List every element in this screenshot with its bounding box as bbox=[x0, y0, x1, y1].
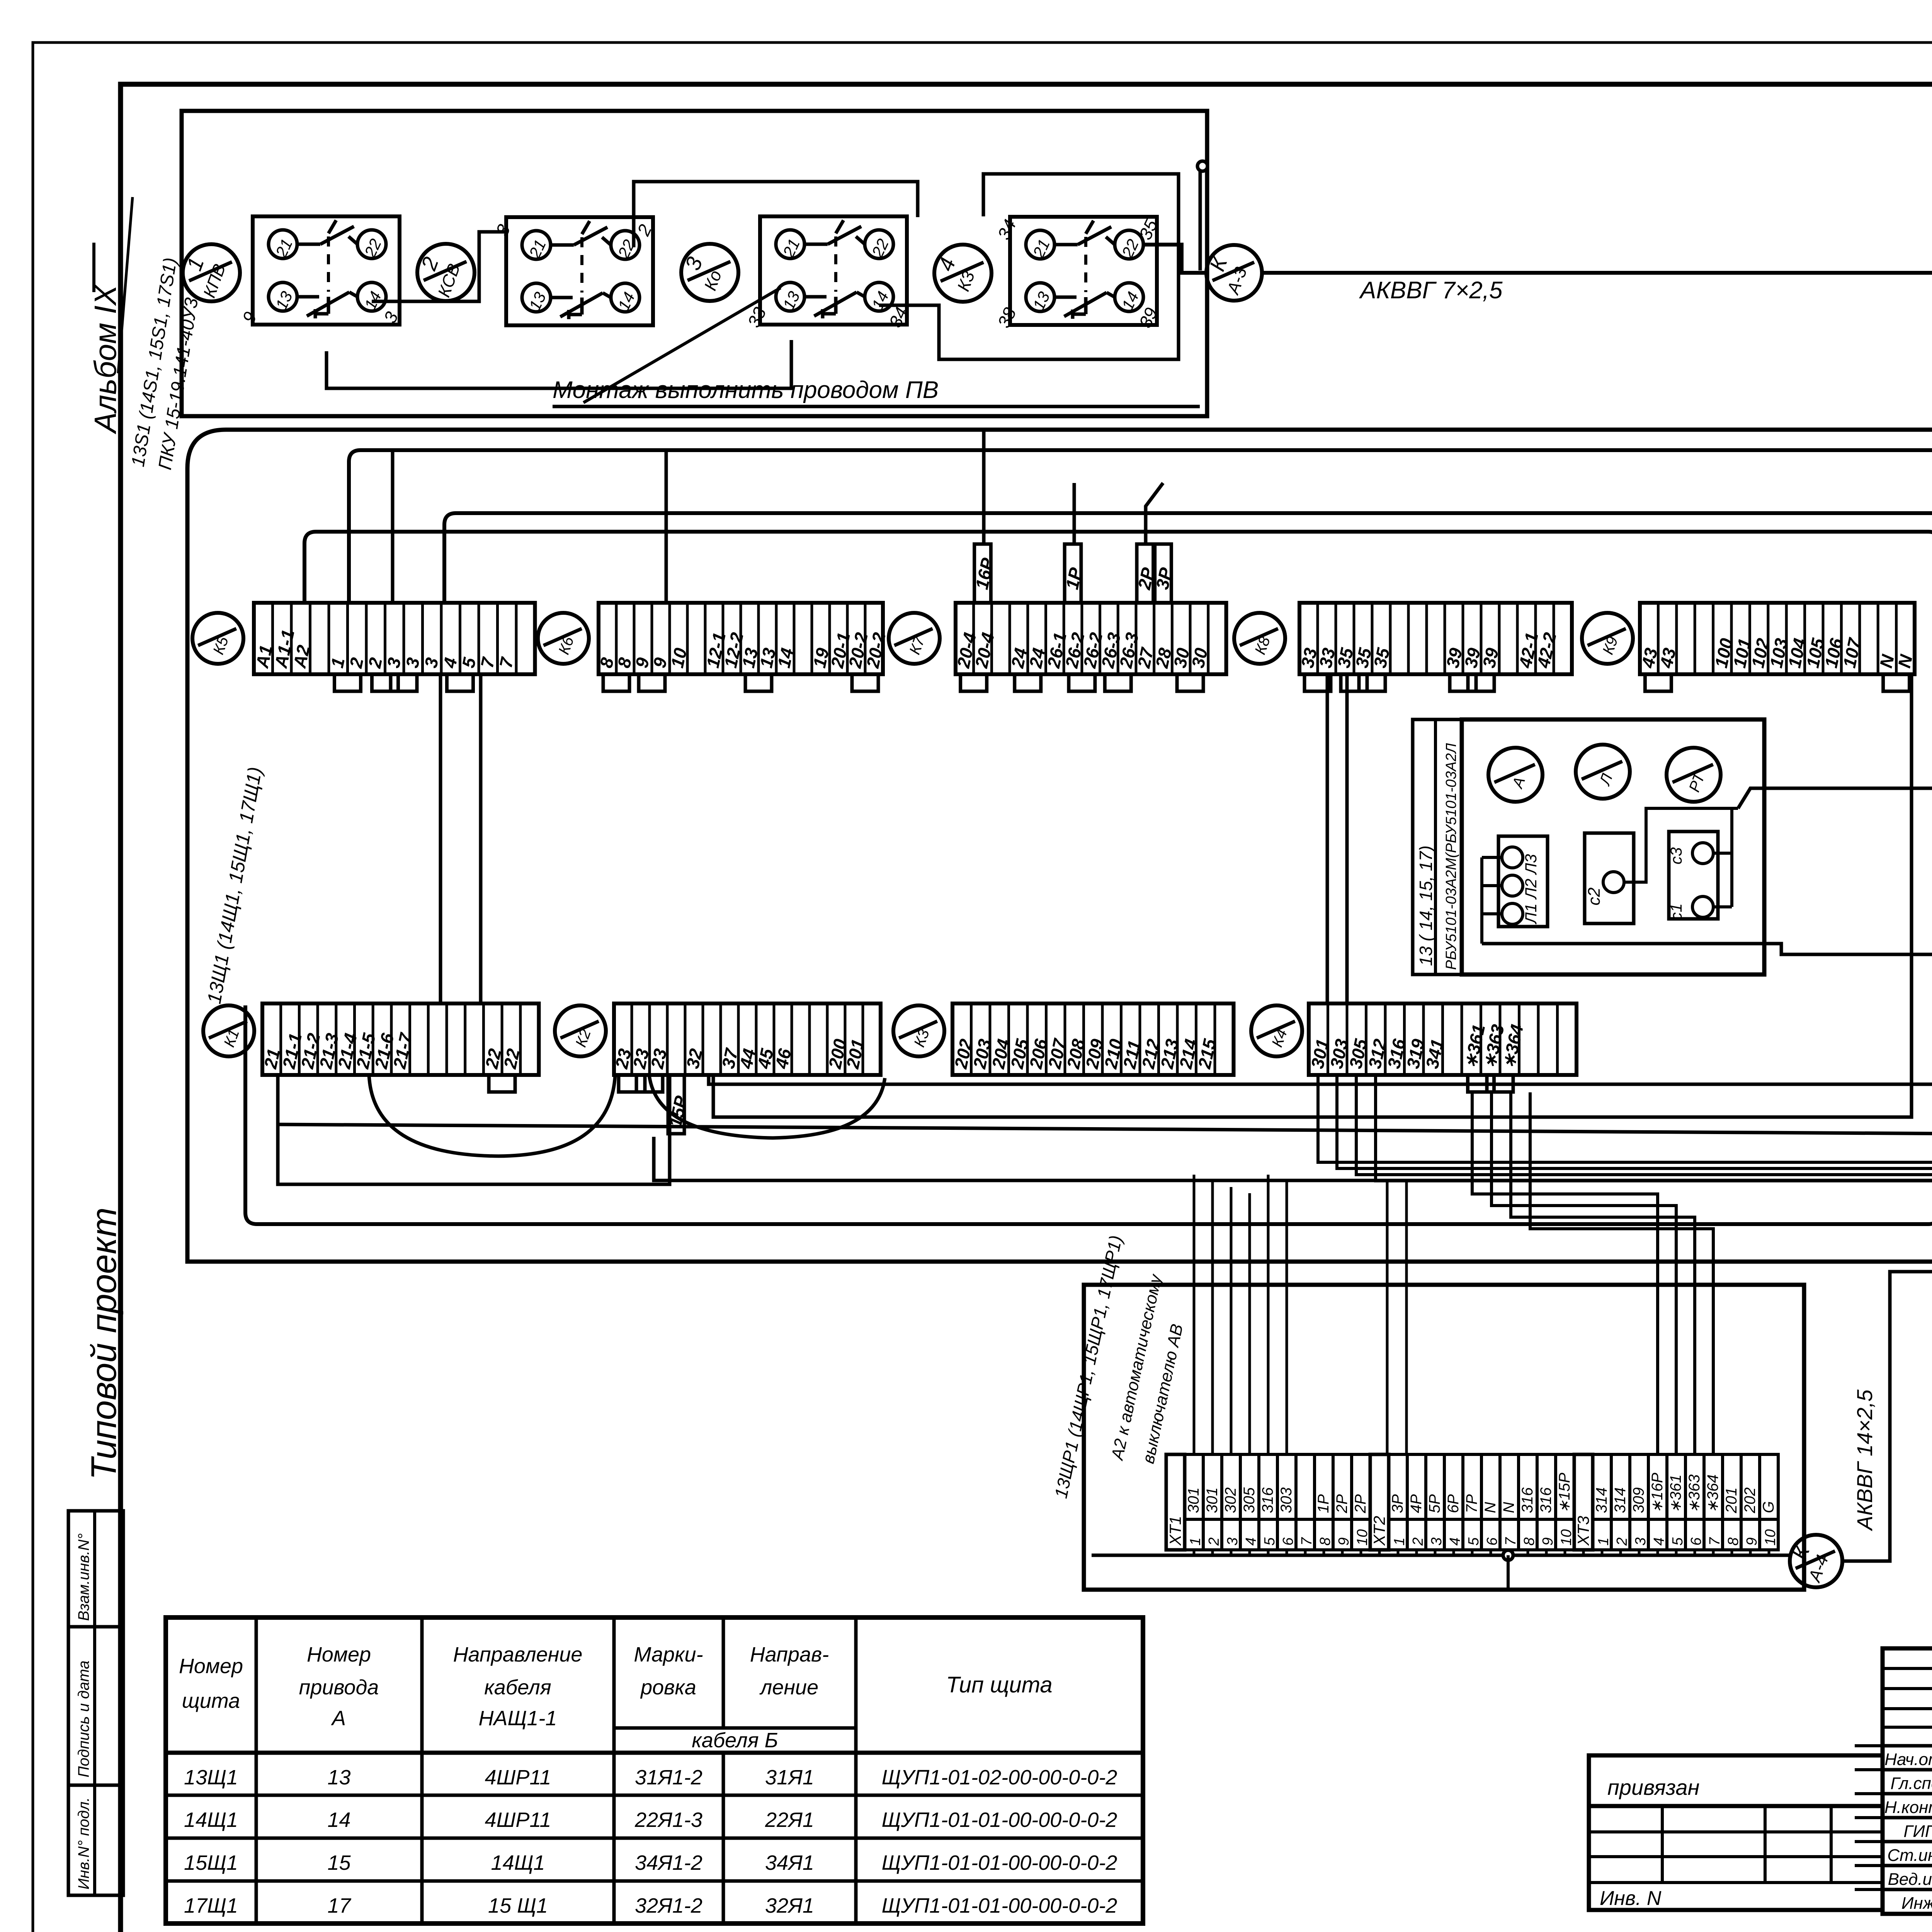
contact group S4 (K3) bbox=[993, 216, 1162, 331]
svg-text:Гл.спец: Гл.спец bbox=[1891, 1774, 1932, 1793]
svg-text:14: 14 bbox=[327, 1808, 350, 1832]
svg-text:9: 9 bbox=[1540, 1537, 1556, 1546]
svg-text:15: 15 bbox=[327, 1851, 351, 1874]
meter circle L bbox=[1576, 745, 1630, 799]
terminal block circle K4 bbox=[1251, 1005, 1302, 1056]
device circle 3/Ko bbox=[680, 244, 738, 301]
svg-text:8: 8 bbox=[1725, 1537, 1742, 1546]
wire K8 to K4 vertical b bbox=[1345, 674, 1349, 1003]
wire K4 cell down-right 4 bbox=[1376, 1075, 1932, 1181]
terminal strip K9 bbox=[1638, 603, 1917, 691]
svg-text:2: 2 bbox=[416, 254, 443, 274]
svg-text:3: 3 bbox=[1633, 1537, 1649, 1546]
svg-text:1: 1 bbox=[1595, 1537, 1612, 1546]
cable circle K/A-3 (left) bbox=[1204, 245, 1262, 301]
device circle 2/KSV bbox=[416, 244, 474, 301]
RBU terminal box L1 L2 L3 bbox=[1498, 836, 1548, 927]
wire riser 16R up bbox=[982, 429, 986, 544]
RBU bottom exit wire to NASch1-1 bbox=[1482, 944, 1932, 954]
svg-text:2: 2 bbox=[1206, 1537, 1222, 1546]
wire riser 1R up bbox=[1073, 483, 1076, 544]
svg-text:34Я1: 34Я1 bbox=[765, 1851, 814, 1874]
svg-text:Марки-: Марки- bbox=[634, 1643, 703, 1666]
cable circle K/A-4 (SchR1) bbox=[1787, 1535, 1842, 1587]
PKU internal wire bottom bus bbox=[327, 340, 791, 388]
svg-text:302: 302 bbox=[1222, 1487, 1239, 1513]
svg-text:ХТ2: ХТ2 bbox=[1370, 1516, 1388, 1546]
svg-text:Инв. N: Инв. N bbox=[1600, 1887, 1662, 1910]
svg-text:15 Щ1: 15 Щ1 bbox=[488, 1894, 548, 1917]
wire A3 bend into K5 cell 2 bbox=[349, 450, 1932, 603]
svg-text:5Р: 5Р bbox=[1426, 1494, 1443, 1513]
svg-text:∗361: ∗361 bbox=[1667, 1475, 1684, 1513]
svg-text:314: 314 bbox=[1593, 1487, 1610, 1513]
svg-text:Подпись и дата: Подпись и дата bbox=[75, 1660, 92, 1777]
terminal strip K5 bbox=[252, 603, 535, 691]
svg-text:303: 303 bbox=[1278, 1487, 1295, 1513]
wire jumper under K1 to K2 bbox=[278, 1075, 670, 1184]
svg-text:6Р: 6Р bbox=[1445, 1494, 1462, 1513]
svg-text:А: А bbox=[1509, 775, 1529, 791]
wire K4 cell down-right 1 bbox=[1318, 1075, 1932, 1162]
svg-text:14Щ1: 14Щ1 bbox=[184, 1808, 238, 1832]
SchR1 terminal strip bbox=[1166, 1454, 1779, 1550]
svg-text:N: N bbox=[1500, 1502, 1517, 1513]
RBU terminal box c1 c3 bbox=[1667, 832, 1718, 920]
wire K4 star cell down 4 bbox=[1530, 1092, 1713, 1454]
wire K4 star cell down 1 bbox=[1472, 1092, 1658, 1454]
svg-text:кабеля: кабеля bbox=[484, 1676, 551, 1699]
svg-text:4ШР11: 4ШР11 bbox=[485, 1766, 551, 1789]
PKU internal wire group1-group2 bbox=[372, 232, 506, 301]
terminal block circle K6 bbox=[538, 613, 589, 664]
privyazan box bbox=[1589, 1755, 1883, 1806]
svg-text:14: 14 bbox=[774, 646, 798, 670]
svg-text:Нач.отд.: Нач.отд. bbox=[1884, 1750, 1932, 1769]
svg-text:31Я1-2: 31Я1-2 bbox=[635, 1766, 702, 1789]
svg-text:10: 10 bbox=[1558, 1529, 1575, 1546]
svg-text:17Щ1: 17Щ1 bbox=[184, 1894, 238, 1917]
svg-text:ХТ1: ХТ1 bbox=[1166, 1516, 1184, 1546]
svg-text:Направ-: Направ- bbox=[750, 1643, 829, 1666]
svg-text:с1: с1 bbox=[1667, 903, 1685, 920]
svg-text:5: 5 bbox=[1466, 1537, 1482, 1546]
curved jumper under K2 bbox=[649, 1075, 885, 1138]
svg-text:13: 13 bbox=[327, 1766, 350, 1789]
svg-text:Монтаж выполнить проводом П: Монтаж выполнить проводом ПВ bbox=[553, 377, 939, 403]
PKU internal wire K3 loop around S4 bbox=[879, 174, 1179, 359]
svg-text:43: 43 bbox=[1656, 646, 1680, 670]
wire K4 star cell down 2 bbox=[1492, 1092, 1676, 1454]
privyazan lower grid bbox=[1589, 1806, 1883, 1910]
svg-text:РБУ5101-03А2М(РБУ5101-03А2Л: РБУ5101-03А2М(РБУ5101-03А2Л bbox=[1443, 743, 1459, 970]
SchR1 box outline bbox=[1084, 1285, 1804, 1590]
svg-text:ГИП: ГИП bbox=[1903, 1822, 1932, 1841]
svg-text:Инв.N° подл.: Инв.N° подл. bbox=[75, 1797, 92, 1889]
terminal block circle K2 bbox=[555, 1005, 606, 1056]
svg-text:Номер: Номер bbox=[179, 1655, 243, 1678]
wire K4 cell down-right 3 bbox=[1356, 1075, 1932, 1175]
svg-text:10: 10 bbox=[1354, 1529, 1371, 1546]
svg-text:3: 3 bbox=[1225, 1537, 1241, 1546]
contact group S2 (KSV) bbox=[492, 217, 656, 325]
svg-text:ЩУП1-01-02-00-00-0-0-2: ЩУП1-01-02-00-00-0-0-2 bbox=[882, 1766, 1117, 1789]
svg-text:Ст.инж.: Ст.инж. bbox=[1887, 1846, 1932, 1865]
svg-text:Альбом IX: Альбом IX bbox=[88, 284, 122, 434]
svg-text:Инж.: Инж. bbox=[1901, 1894, 1932, 1913]
svg-text:НАЩ1-1: НАЩ1-1 bbox=[479, 1707, 557, 1730]
svg-text:314: 314 bbox=[1612, 1487, 1629, 1513]
svg-text:2: 2 bbox=[1614, 1537, 1630, 1546]
svg-text:Номер: Номер bbox=[307, 1643, 371, 1666]
svg-text:4: 4 bbox=[1243, 1537, 1259, 1546]
svg-text:Н.контр.: Н.контр. bbox=[1884, 1798, 1932, 1817]
svg-text:23: 23 bbox=[647, 1047, 671, 1071]
terminal strip K8 bbox=[1297, 603, 1572, 691]
svg-text:ЩУП1-01-01-00-00-0-0-2: ЩУП1-01-01-00-00-0-0-2 bbox=[882, 1808, 1117, 1832]
svg-text:32Я1: 32Я1 bbox=[765, 1894, 814, 1917]
wire risers 2R 3R up bbox=[1146, 483, 1163, 544]
terminal strip K7 bbox=[953, 544, 1226, 691]
svg-text:с3: с3 bbox=[1667, 847, 1685, 864]
terminal block circle K7 bbox=[889, 613, 940, 664]
terminal block circle K3 bbox=[893, 1005, 944, 1056]
wire K4 cell down-right 2 bbox=[1337, 1075, 1932, 1168]
svg-text:301: 301 bbox=[1204, 1487, 1221, 1513]
contact group S1 (KPV) bbox=[238, 216, 402, 326]
RBU c2 wire bbox=[1624, 808, 1738, 882]
svg-text:G: G bbox=[1760, 1501, 1777, 1513]
terminal strip K4 bbox=[1307, 1003, 1577, 1092]
wire A3 branch into K5 cell 3 bbox=[391, 450, 395, 603]
svg-text:ЩУП1-01-01-00-00-0-0-2: ЩУП1-01-01-00-00-0-0-2 bbox=[882, 1894, 1117, 1917]
svg-text:привода: привода bbox=[299, 1676, 379, 1699]
svg-text:7: 7 bbox=[1707, 1537, 1723, 1546]
svg-text:7: 7 bbox=[1503, 1537, 1519, 1546]
svg-text:3Р: 3Р bbox=[1389, 1494, 1406, 1513]
svg-text:305: 305 bbox=[1241, 1487, 1258, 1513]
svg-text:9: 9 bbox=[238, 309, 261, 326]
PKU internal wire top link g2-g3 bbox=[634, 182, 918, 247]
leader line for note bbox=[583, 288, 781, 403]
svg-text:316: 316 bbox=[1519, 1487, 1536, 1513]
svg-text:34: 34 bbox=[993, 216, 1020, 243]
SchR1 internal bus wire bbox=[1092, 1554, 1789, 1557]
RBU top exit wire to NA-1 bbox=[1738, 788, 1932, 808]
svg-text:8: 8 bbox=[1521, 1537, 1537, 1546]
SchR1 junction dot on bus bbox=[1503, 1550, 1513, 1560]
svg-text:9: 9 bbox=[1744, 1537, 1760, 1546]
svg-text:3: 3 bbox=[492, 221, 514, 239]
svg-text:2Р: 2Р bbox=[1352, 1494, 1369, 1514]
curved jumper under K1 bbox=[369, 1075, 615, 1156]
margin box Vzam.inv.N bbox=[68, 1511, 123, 1627]
PKU right riser wire bbox=[1199, 171, 1202, 270]
RBU wires L1-L3 to left bus bbox=[1482, 857, 1502, 944]
SchR1 ground stub to box bottom bbox=[1507, 1555, 1510, 1590]
svg-text:7Р: 7Р bbox=[1463, 1494, 1480, 1513]
wire K6 cell down from A3 level bbox=[665, 450, 668, 603]
svg-text:1: 1 bbox=[182, 254, 209, 274]
svg-text:202: 202 bbox=[1742, 1487, 1759, 1514]
svg-text:10: 10 bbox=[1762, 1529, 1779, 1546]
cable wire A-3 to actuator bbox=[1262, 273, 1932, 454]
svg-text:6: 6 bbox=[1484, 1537, 1500, 1546]
junction circle on riser bbox=[1197, 161, 1207, 171]
svg-text:∗16Р: ∗16Р bbox=[1649, 1473, 1666, 1513]
svg-text:кабеля Б: кабеля Б bbox=[692, 1729, 778, 1752]
title block names grid bbox=[1855, 1648, 1932, 1914]
terminal block circle K8 bbox=[1234, 613, 1285, 664]
wire K8 to K4 vertical a bbox=[1326, 674, 1329, 1003]
terminal block circle K1 bbox=[203, 1005, 254, 1056]
enclosure wire loop N bbox=[245, 532, 1932, 1224]
svg-text:7: 7 bbox=[1299, 1537, 1315, 1546]
PKU wire to KA-3 bbox=[1143, 245, 1206, 273]
cable table rows bbox=[184, 1766, 1117, 1917]
cable table headers bbox=[179, 1643, 1053, 1752]
svg-text:3: 3 bbox=[1429, 1537, 1445, 1546]
terminal strip K3 bbox=[951, 1003, 1234, 1075]
svg-text:привязан: привязан bbox=[1607, 1775, 1699, 1799]
wire bus lower 2 bbox=[713, 674, 1912, 1117]
svg-text:Вед.инж: Вед.инж bbox=[1888, 1870, 1932, 1889]
svg-text:∗364: ∗364 bbox=[1704, 1475, 1721, 1513]
svg-text:22Я1: 22Я1 bbox=[765, 1808, 814, 1832]
svg-text:4: 4 bbox=[1447, 1537, 1463, 1546]
terminal block circle K5 bbox=[192, 613, 243, 664]
svg-text:1: 1 bbox=[1391, 1537, 1408, 1546]
wire 15R down and across bbox=[654, 1137, 1932, 1180]
svg-text:22: 22 bbox=[500, 1047, 524, 1071]
device circle 1/KPV bbox=[182, 244, 240, 301]
big enclosure outer box bbox=[187, 430, 1932, 1262]
svg-text:8: 8 bbox=[1317, 1537, 1333, 1546]
terminal block circle K9 bbox=[1582, 613, 1633, 664]
svg-text:201: 201 bbox=[1723, 1487, 1740, 1514]
wire K-B left segment bbox=[278, 1124, 1932, 1134]
svg-text:22Я1-3: 22Я1-3 bbox=[634, 1808, 702, 1832]
svg-text:6: 6 bbox=[1280, 1537, 1296, 1546]
svg-text:∗15Р: ∗15Р bbox=[1556, 1473, 1573, 1513]
RBU terminal box c2 bbox=[1585, 833, 1634, 923]
SchR1 wires up from XT1 bbox=[1194, 1175, 1406, 1454]
svg-text:32Я1-2: 32Я1-2 bbox=[635, 1894, 702, 1917]
svg-text:1Р: 1Р bbox=[1315, 1494, 1332, 1513]
svg-text:309: 309 bbox=[1630, 1487, 1647, 1513]
svg-text:Направление: Направление bbox=[453, 1643, 583, 1666]
wire K5 to K1 vertical a bbox=[439, 674, 442, 1003]
svg-text:316: 316 bbox=[1259, 1487, 1276, 1513]
svg-text:2Р: 2Р bbox=[1333, 1494, 1350, 1514]
svg-text:Тип щита: Тип щита bbox=[946, 1672, 1052, 1697]
device circle 4/K3 bbox=[933, 245, 992, 302]
svg-text:38: 38 bbox=[993, 304, 1020, 331]
svg-text:ХТ3: ХТ3 bbox=[1574, 1516, 1592, 1546]
terminal strip K1 bbox=[260, 1003, 539, 1092]
svg-text:3: 3 bbox=[680, 254, 707, 274]
svg-text:15Щ1: 15Щ1 bbox=[184, 1851, 238, 1874]
SchR1 outgoing wire right bbox=[1842, 1272, 1932, 1561]
wire K4 star cell down 3 bbox=[1511, 1092, 1695, 1454]
svg-text:4: 4 bbox=[933, 255, 960, 274]
wire bus under K2-K4 strips bbox=[709, 513, 1932, 1084]
svg-text:34Я1-2: 34Я1-2 bbox=[635, 1851, 702, 1874]
svg-text:ровка: ровка bbox=[640, 1676, 696, 1699]
svg-text:щита: щита bbox=[182, 1689, 240, 1713]
svg-text:13Щ1 (14Щ1, 15Щ1, 17Щ1): 13Щ1 (14Щ1, 15Щ1, 17Щ1) bbox=[203, 765, 266, 1005]
meter circle RT bbox=[1667, 748, 1721, 802]
SchR1 stub wires below strip bbox=[1194, 1550, 1769, 1555]
device box RBU5101 outline bbox=[1462, 719, 1764, 975]
svg-text:4ШР11: 4ШР11 bbox=[485, 1808, 551, 1832]
svg-text:9: 9 bbox=[1336, 1537, 1352, 1546]
margin box Inv.N podl. bbox=[68, 1785, 123, 1895]
svg-text:ЩУП1-01-01-00-00-0-0-2: ЩУП1-01-01-00-00-0-0-2 bbox=[882, 1851, 1117, 1874]
svg-text:4: 4 bbox=[1651, 1537, 1667, 1546]
cable table bbox=[166, 1617, 1143, 1923]
svg-text:13Щ1: 13Щ1 bbox=[184, 1766, 238, 1789]
svg-text:6: 6 bbox=[1688, 1537, 1704, 1546]
PKU enclosure box bbox=[182, 111, 1207, 416]
svg-text:13ЩР1 (14ЩР1, 15ЩР1, 17ЩР1): 13ЩР1 (14ЩР1, 15ЩР1, 17ЩР1) bbox=[1051, 1233, 1126, 1500]
svg-text:316: 316 bbox=[1537, 1487, 1554, 1513]
RBU label column bbox=[1413, 719, 1462, 975]
svg-text:31Я1: 31Я1 bbox=[765, 1766, 814, 1789]
contact group S3 (Ko) bbox=[743, 216, 912, 330]
svg-text:АКВВГ 7×2,5: АКВВГ 7×2,5 bbox=[1359, 277, 1503, 304]
svg-text:Взам.инв.N°: Взам.инв.N° bbox=[75, 1533, 92, 1621]
terminal strip K6 bbox=[596, 603, 889, 691]
svg-text:301: 301 bbox=[1185, 1487, 1202, 1513]
wire K5 to K1 vertical b bbox=[479, 674, 483, 1003]
svg-text:46: 46 bbox=[771, 1047, 795, 1071]
svg-text:Л1 Л2 Л3: Л1 Л2 Л3 bbox=[1522, 854, 1540, 925]
svg-text:с2: с2 bbox=[1585, 888, 1604, 905]
svg-text:13 ( 14, 15, 17): 13 ( 14, 15, 17) bbox=[1416, 845, 1436, 966]
svg-text:Типовой проект: Типовой проект bbox=[84, 1207, 124, 1480]
svg-text:1: 1 bbox=[1187, 1537, 1204, 1546]
svg-text:4Р: 4Р bbox=[1408, 1494, 1425, 1513]
terminal strip K2 bbox=[611, 1003, 881, 1134]
svg-text:∗363: ∗363 bbox=[1686, 1475, 1703, 1513]
svg-text:АКВВГ 14×2,5: АКВВГ 14×2,5 bbox=[1852, 1389, 1877, 1531]
svg-text:14Щ1: 14Щ1 bbox=[491, 1851, 545, 1874]
RBU c3-c1 wires bbox=[1713, 808, 1732, 907]
meter circle A bbox=[1488, 748, 1543, 802]
svg-text:17: 17 bbox=[327, 1894, 351, 1917]
svg-text:Л: Л bbox=[1596, 771, 1616, 788]
svg-text:ление: ление bbox=[759, 1676, 818, 1699]
svg-text:5: 5 bbox=[1670, 1537, 1686, 1546]
svg-text:А: А bbox=[331, 1707, 346, 1730]
svg-text:5: 5 bbox=[1262, 1537, 1278, 1546]
svg-text:2: 2 bbox=[1410, 1537, 1426, 1546]
wire to KA-2 from enclosure bbox=[444, 513, 1932, 603]
margin box Podpis i data bbox=[68, 1627, 123, 1785]
svg-text:N: N bbox=[1482, 1502, 1499, 1513]
